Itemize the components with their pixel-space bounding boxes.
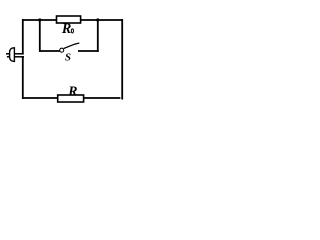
svg-text:S: S [65,51,71,63]
svg-text:R: R [61,21,71,37]
svg-text:R: R [67,83,77,98]
